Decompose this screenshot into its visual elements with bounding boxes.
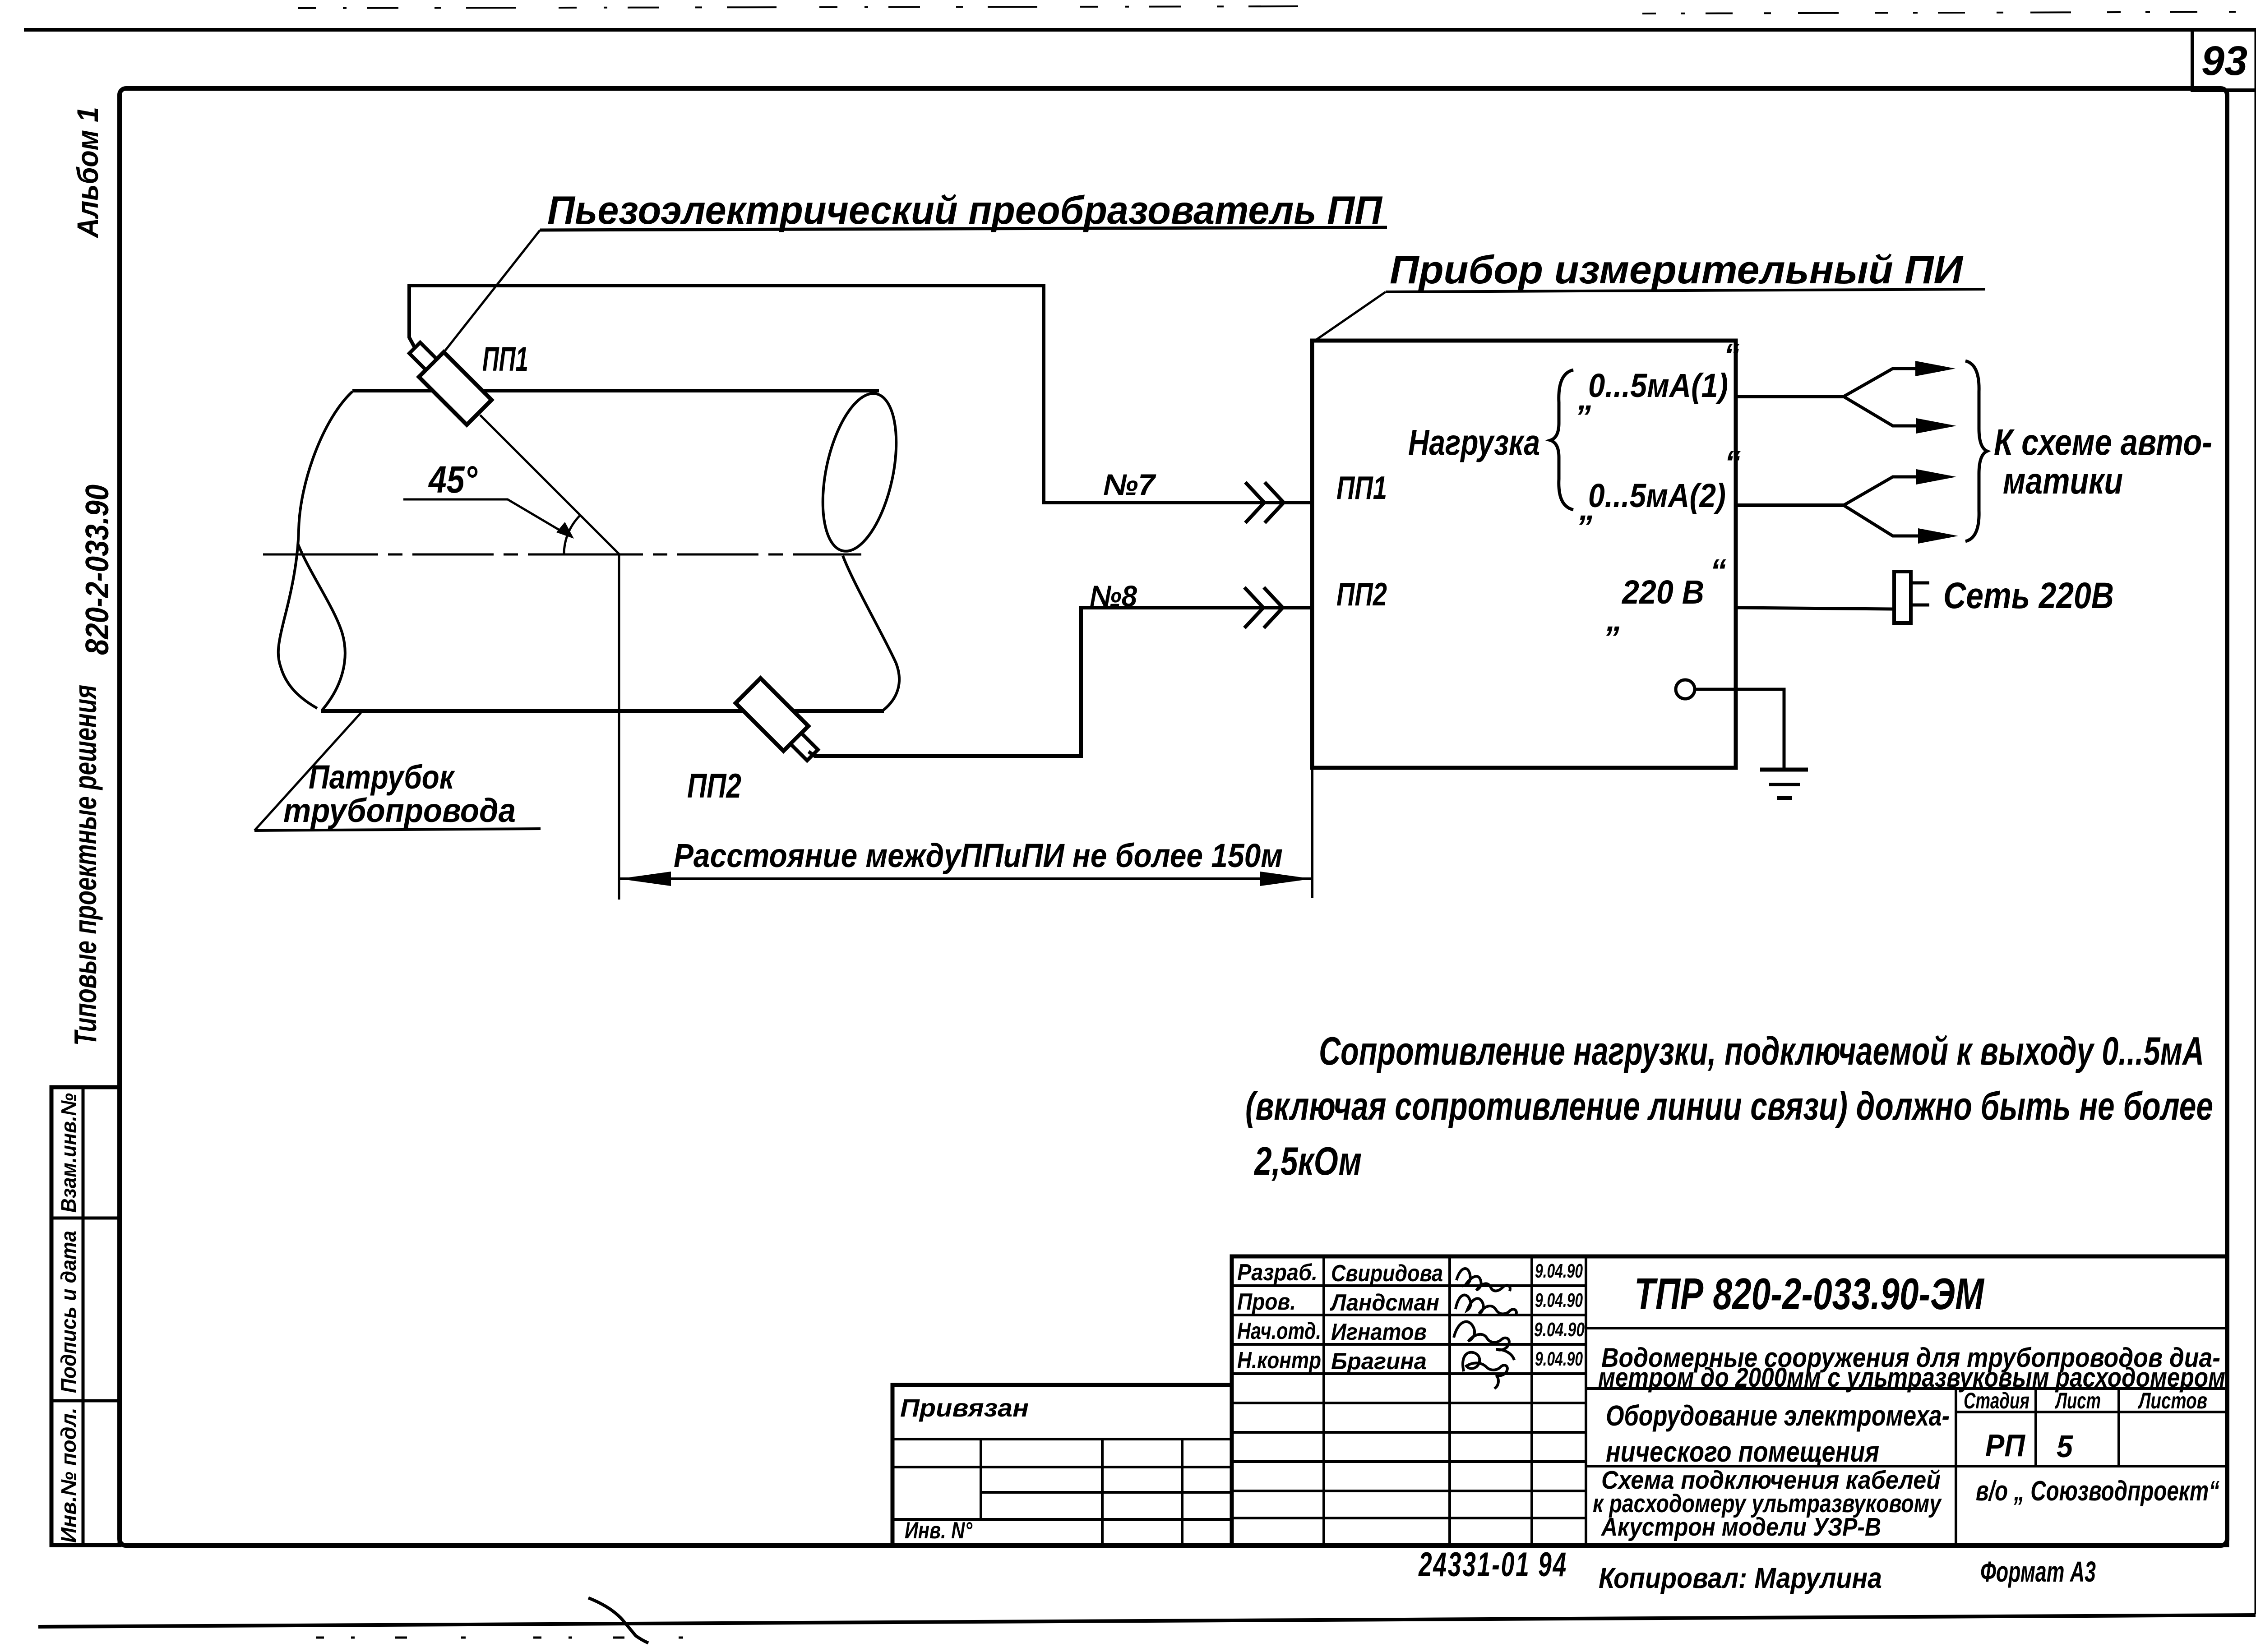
leader to ПП1 (441, 230, 540, 355)
outer right border (2255, 32, 2256, 1614)
svg-text:Привязан: Привязан (900, 1394, 1029, 1422)
svg-text:“: “ (1710, 553, 1726, 589)
svg-text:Взам.инв.№: Взам.инв.№ (56, 1093, 80, 1213)
pipe left break line 2 (298, 544, 345, 710)
row Нач.отд. Игнатов (1237, 1318, 1585, 1360)
pipe left break line (278, 392, 352, 708)
output label 0...5мА(2) (1579, 445, 1741, 527)
svg-text:ПП2: ПП2 (1336, 577, 1387, 613)
pipe top edge (352, 389, 879, 392)
svg-text:Н.контр: Н.контр (1237, 1347, 1321, 1374)
output wire 0...5мА(2) fork (1736, 469, 1958, 544)
row Разраб. Свиридова (1237, 1260, 1583, 1291)
svg-text:2,5кОм: 2,5кОм (1253, 1139, 1362, 1183)
svg-text:(включая сопротивление линии с: (включая сопротивление линии связи) долж… (1245, 1084, 2213, 1128)
output label 0...5мА(1) (1577, 337, 1740, 417)
terminal circle (1676, 680, 1695, 699)
svg-text:РП: РП (1985, 1428, 2025, 1463)
wire cable N8 from ПП2 to ПИ (809, 608, 1311, 756)
svg-text:Листов: Листов (2138, 1388, 2207, 1413)
svg-text:трубопровода: трубопровода (283, 792, 516, 829)
svg-text:0...5мА(2): 0...5мА(2) (1588, 477, 1726, 514)
pipe end ellipse (810, 387, 909, 558)
angle annotation 45° (403, 458, 580, 554)
label Патрубок трубопровода (254, 713, 541, 831)
scan dust bottom (316, 1637, 722, 1639)
svg-text:93: 93 (2201, 38, 2247, 84)
row Пров. Ландсман (1237, 1289, 1583, 1316)
top page rule (24, 28, 2256, 32)
svg-text:“: “ (1724, 445, 1741, 481)
pipe centerline (263, 554, 861, 556)
svg-text:Стадия: Стадия (1964, 1388, 2029, 1413)
pipe right break line (843, 556, 899, 710)
svg-text:Формат А3: Формат А3 (1980, 1555, 2096, 1588)
wire cable N7 from ПП1 to ПИ (409, 286, 1311, 503)
svg-text:5: 5 (2057, 1429, 2073, 1464)
svg-text:Альбом 1: Альбом 1 (71, 107, 104, 239)
stray pen squiggle bottom (588, 1598, 648, 1643)
svg-text:Инв. N°: Инв. N° (905, 1518, 973, 1544)
svg-text:Прибор измерительный ПИ: Прибор измерительный ПИ (1390, 247, 1964, 292)
label К схеме автоматики (1994, 422, 2212, 502)
title block inner lines (892, 1256, 2227, 1545)
left margin stamp table (51, 1087, 120, 1545)
brace left (1550, 370, 1573, 510)
svg-text:0...5мА(1): 0...5мА(1) (1588, 367, 1728, 404)
transducer ПП2 (735, 678, 825, 767)
label Прибор измерительный ПИ (1386, 247, 1985, 292)
title block outline (892, 1256, 2227, 1545)
row Н.контр Брагина (1237, 1347, 1583, 1389)
svg-text:9.04.90: 9.04.90 (1535, 1348, 1583, 1370)
svg-text:ПП2: ПП2 (687, 767, 741, 805)
svg-text:9.04.90: 9.04.90 (1535, 1260, 1583, 1282)
svg-text:Копировал: Марулина: Копировал: Марулина (1599, 1562, 1882, 1594)
svg-text:45°: 45° (428, 458, 478, 501)
svg-text:нического помещения: нического помещения (1606, 1435, 1879, 1468)
svg-text:9.04.90: 9.04.90 (1535, 1289, 1583, 1311)
svg-text:„: „ (1606, 602, 1623, 638)
svg-text:Ландсман: Ландсман (1329, 1290, 1439, 1316)
svg-text:9.04.90: 9.04.90 (1534, 1319, 1585, 1341)
acoustic path 45° line (480, 415, 619, 554)
svg-text:№7: №7 (1103, 468, 1156, 501)
svg-text:ПП1: ПП1 (482, 340, 528, 378)
cable N7 chevron marks (1245, 482, 1284, 523)
outer bottom rule (38, 1615, 2256, 1627)
svg-text:Игнатов: Игнатов (1331, 1319, 1427, 1345)
cable N8 chevron marks (1244, 587, 1283, 628)
label 220В (1606, 553, 1726, 638)
sheet number box 93 (2192, 30, 2256, 90)
svg-text:24331-01 94: 24331-01 94 (1418, 1546, 1567, 1584)
svg-text:К схеме авто-: К схеме авто- (1994, 422, 2212, 463)
svg-text:Патрубок: Патрубок (309, 758, 455, 796)
brace right (1965, 361, 1987, 541)
transducer ПП1 (402, 336, 492, 425)
svg-text:Инв.№ подл.: Инв.№ подл. (56, 1407, 80, 1543)
svg-text:Нач.отд.: Нач.отд. (1237, 1318, 1321, 1344)
measuring instrument ПИ box (1312, 341, 1736, 768)
leader to instrument box (1313, 292, 1386, 342)
scan noise dashes top (298, 6, 2256, 14)
wire 220В to plug (1736, 608, 1894, 609)
svg-text:Акустрон модели УЗР-В: Акустрон модели УЗР-В (1600, 1513, 1881, 1541)
svg-text:Свиридова: Свиридова (1331, 1260, 1443, 1287)
ground wire (1695, 689, 1784, 768)
svg-text:Лист: Лист (2055, 1388, 2101, 1413)
dimension line with arrows (619, 872, 1312, 886)
svg-text:ТПР 820-2-033.90-ЭМ: ТПР 820-2-033.90-ЭМ (1634, 1269, 1985, 1319)
pipe bottom edge (321, 709, 884, 713)
svg-text:Брагина: Брагина (1331, 1348, 1427, 1375)
dimension extension line left (618, 554, 620, 900)
ground symbol (1760, 770, 1808, 798)
svg-text:Разраб.: Разраб. (1237, 1260, 1318, 1286)
svg-text:Типовые проектные решения: Типовые проектные решения (68, 685, 103, 1046)
svg-text:Пров.: Пров. (1237, 1289, 1296, 1315)
svg-text:ПП1: ПП1 (1336, 470, 1387, 506)
svg-text:Расстояние междуППиПИ не боле: Расстояние междуППиПИ не более 150м (674, 837, 1283, 874)
svg-text:Нагрузка: Нагрузка (1408, 422, 1540, 462)
plug connector (1894, 572, 1929, 623)
svg-text:Сопротивление нагрузки, подклю: Сопротивление нагрузки, подключаемой к в… (1319, 1029, 2204, 1073)
svg-text:в/о „ Союзводпроект“: в/о „ Союзводпроект“ (1976, 1476, 2219, 1507)
svg-text:Оборудование электромеха-: Оборудование электромеха- (1606, 1399, 1950, 1432)
svg-text:Подпись и дата: Подпись и дата (56, 1231, 80, 1393)
svg-text:матики: матики (2003, 461, 2123, 502)
svg-text:Сеть 220В: Сеть 220В (1943, 575, 2114, 616)
svg-text:“: “ (1724, 337, 1740, 374)
svg-text:Пьезоэлектрический преобразов: Пьезоэлектрический преобразователь ПП (547, 188, 1383, 232)
label Пьезоэлектрический преобразователь ПП (540, 188, 1387, 232)
svg-text:820-2-033.90: 820-2-033.90 (79, 485, 116, 655)
output wire 0...5мА(1) fork (1736, 361, 1956, 434)
dimension extension line right (1311, 768, 1313, 898)
svg-text:метром до 2000мм с ультразвуко: метром до 2000мм с ультразвуковым расход… (1598, 1362, 2225, 1393)
svg-text:220 В: 220 В (1621, 573, 1704, 611)
svg-text:№8: №8 (1090, 579, 1137, 613)
